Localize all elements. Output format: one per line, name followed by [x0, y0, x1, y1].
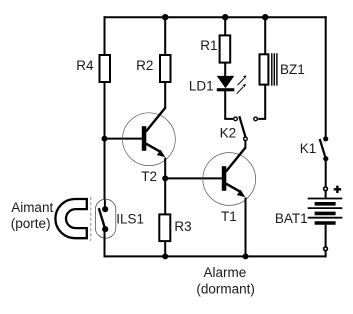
svg-text:R4: R4: [76, 58, 94, 73]
wire T2 base: [105, 138, 143, 140]
wire R1 to LED: [224, 62, 226, 76]
svg-text:R3: R3: [174, 219, 191, 234]
wire bottom bus: [104, 255, 327, 257]
node left rail / T2 base junction: [102, 136, 108, 142]
text Aimant (porte): [11, 200, 54, 231]
transistor T1: [203, 148, 256, 224]
resistor R4: [76, 55, 110, 82]
wire plates to minus circle: [325, 225, 327, 247]
buzzer BZ1: [260, 53, 305, 85]
svg-text:ILS1: ILS1: [116, 212, 144, 227]
wire T1 emitter down: [245, 198, 247, 257]
svg-text:K1: K1: [300, 141, 317, 156]
wire R2 to T2 collector: [164, 83, 166, 109]
wire LED to K2 left contact: [225, 91, 233, 119]
wire K2 common to T1 collector: [244, 141, 246, 149]
reed switch ILS1: [95, 199, 144, 238]
svg-text:(dormant): (dormant): [196, 281, 255, 296]
resistor R1: [200, 35, 230, 62]
svg-text:Alarme: Alarme: [204, 265, 247, 280]
wire plus circle to plates: [325, 191, 327, 198]
svg-text:R1: R1: [200, 38, 217, 53]
LED LD1: [189, 75, 247, 94]
battery BAT1 plates: [275, 199, 342, 227]
magnet (horseshoe): [55, 199, 86, 238]
svg-text:K2: K2: [220, 125, 237, 140]
svg-text:BZ1: BZ1: [280, 62, 305, 77]
wire minus circle to bottom bus: [325, 251, 327, 258]
wire BZ1 branch top: [264, 17, 266, 54]
wire left rail upper: [104, 16, 106, 55]
svg-text:T1: T1: [221, 209, 237, 224]
wire top bus: [105, 16, 327, 18]
transistor T2: [122, 108, 175, 185]
node R2 branch top: [162, 14, 168, 20]
battery plus terminal circle: [324, 187, 328, 191]
plus sign: [334, 186, 341, 193]
svg-text:BAT1: BAT1: [275, 211, 308, 226]
node R3 bottom: [162, 253, 168, 259]
node BZ1 branch top: [262, 14, 268, 20]
wire R2 branch top: [164, 17, 166, 55]
resistor R3: [159, 214, 191, 241]
node T2 emitter / T1 base junction: [162, 175, 168, 181]
wire R4 to ILS1: [104, 83, 106, 209]
svg-text:R2: R2: [136, 58, 153, 73]
wire R1 branch top: [224, 17, 226, 35]
wire right rail top: [325, 16, 327, 137]
svg-text:Aimant: Aimant: [11, 200, 53, 215]
wire K1 to battery: [325, 159, 327, 187]
node T1 emitter bottom: [243, 253, 249, 259]
wire ILS1 to bottom bus: [104, 229, 106, 257]
switch K1: [300, 136, 329, 161]
switch K2: [220, 116, 258, 140]
battery minus terminal circle: [324, 247, 328, 251]
wire T2 emitter to T1 base: [165, 177, 222, 179]
wire T2 emitter down: [164, 158, 166, 215]
dashed separation line: [90, 197, 92, 241]
wire R3 to bottom bus: [164, 241, 166, 257]
text Alarme (dormant): [196, 265, 255, 296]
wire BZ1 to K2 right contact: [258, 85, 265, 119]
svg-text:T2: T2: [141, 169, 157, 184]
svg-text:LD1: LD1: [189, 78, 214, 93]
resistor R2: [136, 55, 170, 82]
svg-text:(porte): (porte): [11, 216, 51, 231]
node R1 branch top: [222, 14, 228, 20]
